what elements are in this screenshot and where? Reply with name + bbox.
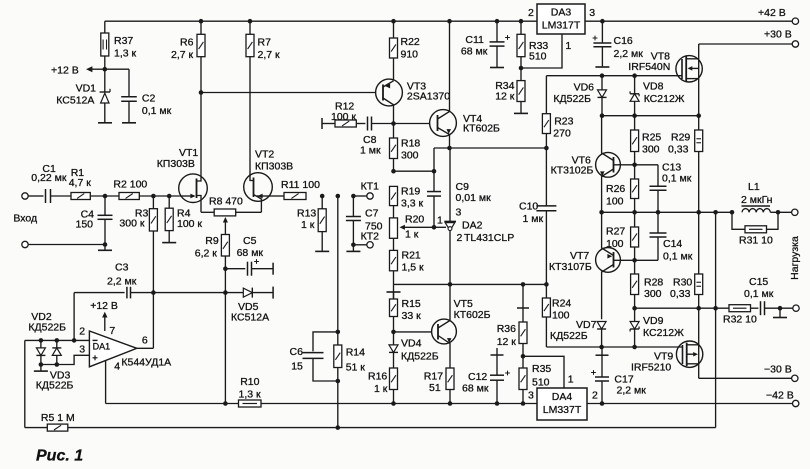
svg-text:2: 2 — [528, 7, 534, 19]
svg-text:3: 3 — [589, 7, 595, 19]
svg-text:150: 150 — [76, 219, 94, 231]
resistor R35 — [522, 356, 524, 368]
svg-text:3,3 к: 3,3 к — [401, 198, 424, 210]
wire VD bottoms to non-inverting input — [41, 355, 90, 364]
svg-text:510: 510 — [532, 377, 550, 389]
svg-text:C3: C3 — [115, 262, 129, 274]
svg-text:C5: C5 — [243, 235, 257, 247]
svg-text:100 к: 100 к — [177, 218, 202, 230]
svg-text:КД522Б: КД522Б — [553, 93, 591, 105]
svg-text:0,22 мк: 0,22 мк — [31, 172, 67, 184]
node VD2 bottom — [39, 362, 44, 367]
svg-text:1,3 к: 1,3 к — [114, 48, 137, 60]
svg-text:1 к: 1 к — [405, 229, 419, 241]
svg-text:VD4: VD4 — [401, 338, 422, 350]
node +12V with arrow — [103, 67, 108, 72]
svg-text:R37: R37 — [114, 35, 133, 47]
capacitor C5 — [225, 268, 245, 270]
capacitor C13 — [657, 165, 659, 186]
svg-text:КТ3102Б: КТ3102Б — [551, 165, 594, 177]
svg-text:4,7 к: 4,7 к — [69, 177, 92, 189]
svg-text:+42 В: +42 В — [758, 7, 786, 19]
wire inverting input line — [25, 339, 90, 341]
svg-text:R28: R28 — [644, 277, 663, 289]
resistor R21 — [393, 238, 395, 250]
svg-text:R6: R6 — [180, 37, 194, 49]
test point KT1 — [353, 195, 366, 197]
diode VD3 — [56, 340, 58, 348]
wire R12 input bar — [321, 118, 323, 129]
resistor R25 — [634, 116, 636, 130]
svg-text:Рис. 1: Рис. 1 — [36, 448, 83, 465]
svg-text:КС212Ж: КС212Ж — [643, 327, 684, 339]
op-amp DA1 — [89, 331, 136, 367]
svg-text:КТ602Б: КТ602Б — [454, 309, 491, 321]
svg-text:+12 В: +12 В — [51, 65, 79, 77]
svg-text:0,1 мк: 0,1 мк — [662, 173, 692, 185]
svg-text:910: 910 — [401, 49, 419, 61]
wire feedback column right — [715, 212, 717, 427]
node R23 bottom — [544, 146, 549, 151]
node VT7 base — [620, 259, 658, 261]
svg-text:R25: R25 — [642, 132, 661, 144]
test point KT2 — [351, 243, 356, 248]
svg-text:TL431CLP: TL431CLP — [464, 232, 514, 244]
svg-text:+12 В: +12 В — [90, 300, 118, 312]
node R36 bottom — [521, 354, 526, 359]
wire to VT4 base — [394, 123, 430, 125]
wire VT1 drain to VT3 base — [201, 92, 376, 94]
svg-text:68 мк: 68 мк — [462, 383, 489, 395]
svg-text:0,01 мк: 0,01 мк — [456, 192, 492, 204]
wire R2 to VT1 gate — [139, 195, 179, 197]
resistor R37 — [104, 21, 106, 33]
transistor VT6 — [596, 152, 621, 177]
svg-text:Вход: Вход — [13, 213, 37, 225]
node VT6 base — [620, 164, 658, 166]
svg-text:R31 10: R31 10 — [739, 235, 773, 247]
node C3 feedback — [151, 290, 156, 295]
svg-text:R17: R17 — [424, 371, 443, 383]
input terminal lower — [22, 241, 28, 247]
wire VT4 emitter line — [434, 147, 546, 149]
capacitor C4 — [104, 196, 106, 215]
svg-text:IRF540N: IRF540N — [628, 61, 670, 73]
terminal +30V — [792, 41, 798, 47]
svg-text:R24: R24 — [552, 298, 571, 310]
wire R14 to feedback line — [337, 381, 339, 428]
svg-text:R30: R30 — [673, 277, 692, 289]
resistor R17 — [446, 368, 454, 390]
diode VD7 — [597, 322, 606, 330]
svg-text:2,7 к: 2,7 к — [258, 49, 281, 61]
diode VD5 — [225, 292, 243, 294]
svg-text:−30 В: −30 В — [764, 364, 792, 376]
wire upper MOSFET node line — [602, 115, 699, 117]
resistor R1 — [71, 193, 90, 200]
svg-text:IRF5210: IRF5210 — [631, 361, 671, 373]
svg-text:0,33: 0,33 — [670, 288, 691, 300]
resistor R23 — [545, 76, 547, 114]
node R24 top — [544, 282, 549, 287]
svg-text:R10: R10 — [240, 376, 259, 388]
svg-text:КД522Б: КД522Б — [401, 351, 439, 363]
potentiometer R20 — [390, 218, 398, 238]
svg-text:C12: C12 — [468, 371, 487, 383]
svg-text:DA2: DA2 — [462, 220, 483, 232]
transistor VT7 — [596, 248, 621, 273]
svg-text:0,1 мк: 0,1 мк — [142, 105, 172, 117]
svg-text:VD8: VD8 — [643, 81, 664, 93]
svg-text:2,2 мк: 2,2 мк — [617, 384, 647, 396]
resistor R6 — [199, 19, 204, 24]
svg-text:100: 100 — [606, 196, 624, 208]
resistor R19 — [390, 186, 398, 205]
ground at output zobel — [779, 308, 781, 317]
node DA2 ref — [432, 225, 437, 230]
transistor VT3 — [376, 79, 403, 106]
svg-text:R15: R15 — [402, 298, 421, 310]
capacitor C9 — [433, 148, 435, 191]
svg-text:1,3 к: 1,3 к — [239, 388, 262, 400]
ground under R34 — [514, 112, 528, 114]
resistor R11 — [284, 193, 306, 200]
svg-text:R18: R18 — [401, 138, 420, 150]
resistor R3 — [152, 196, 154, 209]
svg-text:C16: C16 — [614, 35, 633, 47]
svg-text:12 к: 12 к — [497, 336, 517, 348]
svg-text:15: 15 — [291, 361, 303, 373]
svg-text:3: 3 — [528, 390, 534, 402]
shunt regulator DA2 TL431 — [449, 148, 451, 221]
node R14 bottom — [336, 379, 341, 384]
svg-text:VT2: VT2 — [255, 149, 274, 161]
svg-text:+30 В: +30 В — [764, 29, 792, 41]
wire +12V supply arrow DA1 — [104, 315, 106, 331]
svg-text:R23: R23 — [554, 116, 573, 128]
svg-text:Нагрузка: Нагрузка — [789, 236, 801, 280]
svg-text:КП303В: КП303В — [255, 161, 293, 173]
node VT3 collector — [391, 121, 396, 126]
ground under VD1 — [98, 122, 112, 124]
svg-text:1: 1 — [568, 374, 574, 386]
wire pin1 DA3 — [521, 34, 562, 68]
svg-text:2 мкГн: 2 мкГн — [741, 194, 773, 206]
svg-text:КД522Б: КД522Б — [550, 330, 588, 342]
svg-text:510: 510 — [529, 51, 547, 63]
capacitor C16 — [600, 19, 605, 24]
svg-text:R27: R27 — [606, 226, 625, 238]
wire output rail — [602, 211, 732, 213]
svg-text:КТ2: КТ2 — [361, 231, 380, 243]
svg-text:LM317T: LM317T — [542, 20, 581, 32]
svg-text:R13: R13 — [297, 208, 316, 220]
svg-text:R36: R36 — [497, 323, 516, 335]
svg-text:33 к: 33 к — [402, 310, 422, 322]
svg-text:300 к: 300 к — [119, 218, 144, 230]
svg-text:300: 300 — [401, 150, 419, 162]
svg-text:0,1 мк: 0,1 мк — [744, 288, 774, 300]
svg-text:C10: C10 — [519, 201, 538, 213]
resistor R33 — [519, 19, 524, 24]
svg-text:270: 270 — [553, 128, 571, 140]
resistor R13 — [320, 194, 325, 199]
svg-text:C7: C7 — [365, 208, 379, 220]
svg-text:КТ3107Б: КТ3107Б — [549, 261, 592, 273]
transistor VT1 — [179, 174, 208, 203]
svg-text:R29: R29 — [671, 132, 690, 144]
svg-text:R11 100: R11 100 — [281, 179, 320, 191]
capacitor C10 — [545, 148, 547, 206]
svg-text:КП303В: КП303В — [157, 158, 195, 170]
MOSFET VT8 — [676, 56, 702, 82]
svg-text:1 мк: 1 мк — [523, 213, 544, 225]
wire feedback line R5 — [24, 340, 26, 427]
node R15 bottom / VT5 base — [391, 330, 396, 335]
MOSFET VT9 — [676, 341, 702, 367]
potentiometer R8 — [201, 211, 214, 213]
resistor R32 — [729, 305, 751, 312]
resistor R31 — [732, 212, 745, 229]
svg-text:R19: R19 — [401, 186, 420, 198]
svg-text:R21: R21 — [402, 250, 421, 262]
svg-text:2: 2 — [592, 390, 598, 402]
wire R14 column — [336, 194, 341, 199]
capacitor C14 — [657, 212, 659, 233]
svg-text:300: 300 — [642, 144, 660, 156]
svg-text:3: 3 — [456, 207, 462, 219]
zener VD8 — [632, 73, 637, 78]
capacitor C17 — [601, 347, 603, 377]
svg-text:2: 2 — [79, 326, 85, 338]
svg-text:КД522Б: КД522Б — [28, 322, 66, 334]
terminal -42V — [793, 400, 799, 406]
resistor R5 — [47, 424, 68, 431]
resistor R9 — [221, 235, 229, 257]
ground under C7 — [352, 245, 354, 251]
svg-text:C6: C6 — [290, 346, 304, 358]
svg-text:R26: R26 — [606, 183, 625, 195]
svg-text:КС512А: КС512А — [56, 94, 94, 106]
svg-text:0,33: 0,33 — [668, 144, 689, 156]
svg-text:VD6: VD6 — [574, 82, 595, 94]
svg-text:R2 100: R2 100 — [113, 179, 147, 191]
svg-text:LM337T: LM337T — [543, 404, 582, 416]
svg-text:2,7 к: 2,7 к — [171, 49, 194, 61]
resistor R10 — [239, 400, 262, 407]
capacitor C8 — [356, 123, 365, 125]
svg-text:12 к: 12 к — [495, 91, 515, 103]
svg-text:1 к: 1 к — [301, 219, 315, 231]
wire pin4 DA1 down — [105, 361, 107, 404]
capacitor C12 — [496, 348, 498, 375]
svg-text:51: 51 — [429, 382, 441, 394]
resistor R27 — [634, 212, 636, 227]
wire bottom bus — [106, 403, 793, 405]
ground under C2 — [122, 122, 136, 124]
node VD5 anode — [223, 290, 228, 295]
wire top +42V bus — [105, 20, 792, 22]
transistor VT4 — [430, 110, 457, 137]
svg-text:R14: R14 — [346, 347, 365, 359]
capacitor C11 — [495, 19, 500, 24]
svg-text:100: 100 — [552, 310, 570, 322]
zener VD1 — [104, 69, 106, 92]
svg-text:7: 7 — [109, 325, 115, 337]
resistor R26 — [634, 165, 636, 179]
terminal -30V — [792, 375, 798, 381]
capacitor C7 — [352, 196, 354, 216]
svg-text:R7: R7 — [258, 37, 272, 49]
svg-text:КС512А: КС512А — [231, 312, 269, 324]
wire R9 node down — [224, 269, 226, 293]
resistor R14 — [337, 332, 339, 345]
wire pin1 DA4 — [523, 356, 564, 388]
svg-text:VD9: VD9 — [643, 315, 664, 327]
svg-text:300: 300 — [644, 288, 662, 300]
resistor R4 — [168, 196, 170, 208]
inductor L1 — [742, 205, 771, 207]
wire R18 node to C9 column — [394, 170, 435, 172]
svg-text:R35: R35 — [532, 363, 551, 375]
svg-text:100 к: 100 к — [331, 111, 356, 123]
resistor R15 — [393, 292, 395, 299]
node R14 top — [336, 330, 341, 335]
svg-text:2,2 мк: 2,2 мк — [614, 48, 644, 60]
ground under VD2 — [40, 365, 42, 371]
terminal output — [792, 209, 798, 215]
resistor R29 — [698, 116, 700, 130]
svg-text:1: 1 — [565, 40, 571, 52]
resistor R12 — [335, 120, 356, 127]
resistor R30 — [698, 212, 700, 274]
svg-text:К544УД1А: К544УД1А — [121, 356, 171, 368]
svg-text:0,1 мк: 0,1 мк — [663, 251, 693, 263]
svg-text:КТ602Б: КТ602Б — [463, 123, 500, 135]
wire +30V — [699, 43, 792, 45]
wire bias line y284 — [394, 283, 547, 285]
svg-text:КД522Б: КД522Б — [36, 380, 74, 392]
wire R1-R2 — [90, 195, 119, 197]
ground bar below R21 — [393, 284, 395, 299]
capacitor C6 — [313, 332, 338, 352]
terminal +42V — [792, 18, 798, 24]
svg-text:4: 4 — [114, 360, 120, 372]
regulator DA3 — [537, 4, 585, 34]
wire ref to DA2 — [434, 226, 446, 228]
wire VT9 gate line — [546, 346, 682, 348]
svg-text:1 к: 1 к — [374, 383, 388, 395]
resistor R16 — [390, 368, 398, 390]
resistor R22 — [391, 19, 396, 24]
node R9 bottom — [223, 266, 228, 271]
wire pin6 output DA1 — [137, 347, 154, 349]
wire VT2 gate to R11 — [269, 195, 284, 197]
diode VD2 — [40, 340, 42, 348]
wire lower MOSFET node line — [635, 307, 729, 309]
diode VD4 — [393, 332, 395, 345]
zener VD9 — [634, 308, 636, 321]
svg-text:C2: C2 — [142, 92, 156, 104]
node VT1 drain — [199, 90, 204, 95]
resistor R24 — [545, 284, 547, 298]
svg-text:КС212Ж: КС212Ж — [644, 93, 685, 105]
wire R6 to VT1 — [200, 93, 202, 177]
svg-text:DA3: DA3 — [551, 7, 572, 19]
svg-text:51 к: 51 к — [346, 362, 366, 374]
wire -30V — [699, 377, 792, 379]
svg-text:2SA1370: 2SA1370 — [407, 91, 450, 103]
resistor R7 — [248, 19, 253, 24]
svg-text:68 мк: 68 мк — [237, 247, 264, 259]
svg-text:3: 3 — [79, 344, 85, 356]
svg-text:6,2 к: 6,2 к — [195, 248, 218, 260]
svg-text:R20: R20 — [405, 214, 424, 226]
svg-text:R9: R9 — [205, 235, 219, 247]
svg-text:R8 470: R8 470 — [209, 195, 243, 207]
svg-text:R22: R22 — [401, 36, 420, 48]
svg-text:DA1: DA1 — [93, 342, 111, 352]
ground at input — [104, 245, 106, 250]
transistor VT5 — [432, 319, 457, 344]
node R9 column at bus — [223, 401, 228, 406]
ground under R13 — [315, 250, 329, 252]
svg-text:2,2 мк: 2,2 мк — [107, 276, 137, 288]
svg-text:C15: C15 — [749, 276, 768, 288]
node R33 bottom — [519, 66, 524, 71]
svg-text:1: 1 — [437, 215, 443, 227]
svg-text:68 мк: 68 мк — [461, 46, 488, 58]
svg-text:1,5 к: 1,5 к — [402, 262, 425, 274]
svg-text:R32 10: R32 10 — [723, 314, 757, 326]
svg-text:L1: L1 — [748, 181, 760, 193]
regulator DA4 — [537, 388, 587, 420]
svg-text:КТ1: КТ1 — [361, 181, 380, 193]
svg-text:DA4: DA4 — [552, 391, 573, 403]
capacitor C2 — [105, 68, 129, 70]
node R14 column at feedback line — [336, 425, 341, 430]
resistor R28 — [634, 260, 636, 274]
wire R9 column to bottom bus — [224, 293, 226, 404]
node R18-R19 — [391, 169, 396, 174]
resistor R2 — [119, 193, 139, 200]
diode VD6 — [600, 73, 605, 78]
resistor R18 — [393, 124, 395, 139]
svg-text:1 мк: 1 мк — [360, 145, 381, 157]
wire gate bias rail upper — [546, 75, 682, 77]
wire C3 left branch down — [73, 293, 75, 341]
transistor VT2 — [244, 173, 273, 202]
svg-text:R5 1 М: R5 1 М — [41, 412, 75, 424]
wire C3 to VD5 node — [153, 292, 225, 294]
svg-text:R16: R16 — [368, 371, 387, 383]
svg-text:−42 В: −42 В — [766, 390, 794, 402]
svg-text:C11: C11 — [465, 34, 484, 46]
capacitor C1 — [45, 189, 47, 203]
resistor R34 — [520, 68, 522, 81]
input terminal upper — [22, 193, 28, 199]
capacitor C15 — [751, 307, 759, 309]
svg-text:2: 2 — [457, 232, 463, 244]
capacitor C3 — [74, 292, 125, 294]
terminal load lower — [793, 305, 799, 311]
svg-text:6: 6 — [142, 335, 148, 347]
ground under R4 — [162, 242, 176, 244]
wire to VT5 base — [394, 331, 432, 333]
svg-text:VD1: VD1 — [76, 82, 97, 94]
svg-text:C14: C14 — [663, 238, 682, 250]
resistor R36 — [521, 282, 526, 287]
